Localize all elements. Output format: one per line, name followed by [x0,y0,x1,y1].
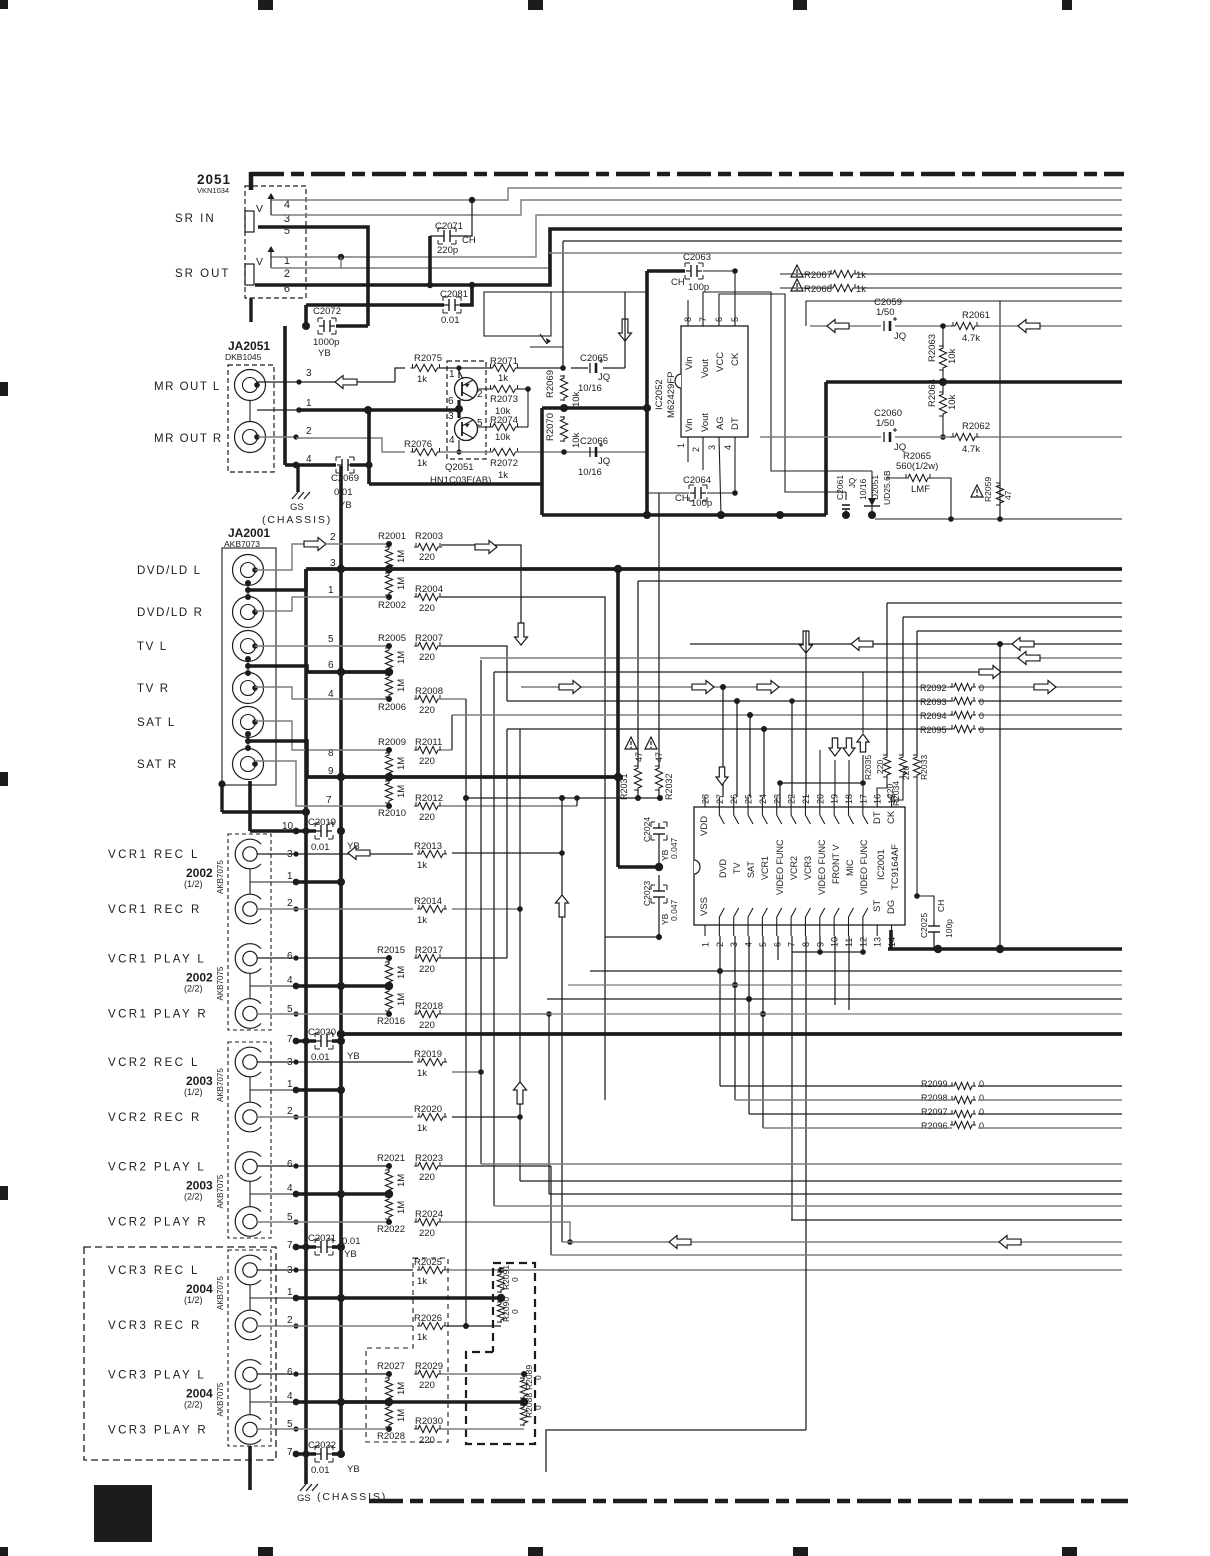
wire R2019 net [452,660,484,1164]
wire IC2001 pin14 DG thick [888,930,1122,953]
wire thick row 515 [542,511,826,519]
wire thick row 1034 [337,1030,1122,1038]
svg-text:0.01: 0.01 [311,842,330,853]
svg-text:YB: YB [347,1464,360,1475]
wire DVD/LD L tip to pin2 [255,544,305,570]
pin labels Q2051 [448,369,483,446]
jack DVD/LD R [137,597,264,628]
transistor Q2051 label [430,462,491,486]
svg-text:4: 4 [287,1183,293,1194]
svg-text:0: 0 [979,1107,984,1117]
arrow row687 d [1034,681,1056,694]
wire TV L tip pin5 [255,643,392,649]
wire SR pin4 net [271,188,1122,203]
resistor R2097 row [749,1107,1122,1118]
black block bottom-left [94,1485,152,1542]
svg-text:100p: 100p [691,498,712,509]
svg-text:R2032: R2032 [664,773,674,800]
connector VCR3 outer box [84,1247,276,1460]
arrow row658 [1018,652,1040,665]
svg-text:8: 8 [801,942,811,947]
svg-text:220: 220 [419,1228,435,1239]
svg-text:220: 220 [901,766,911,780]
wire VCR3 REC R row [257,1323,413,1328]
svg-text:UD25.6B: UD25.6B [882,470,892,505]
wire VCR2 pin1 thick [293,1086,345,1094]
svg-text:220: 220 [419,1435,435,1446]
wire row 1194 [549,1193,1122,1195]
wire R2062 row [760,436,1122,438]
svg-text:1k: 1k [417,1332,427,1343]
resistor R2016 [377,988,407,1027]
wire SAT R tip pin7 [255,761,392,809]
svg-text:47: 47 [1003,490,1013,500]
wire thick row 408 [542,404,651,412]
svg-text:C2025: C2025 [919,913,929,938]
wire R2059 bottom [999,503,1001,519]
wire VCR1 REC R row [257,906,413,911]
wire VCR2 PLAY R row [257,1219,392,1225]
svg-text:220: 220 [419,652,435,663]
warning triangle R2068 [791,279,803,291]
resistor R2009 [378,737,407,776]
svg-text:CH: CH [936,900,946,912]
svg-text:VCR1: VCR1 [760,856,770,880]
svg-text:2: 2 [330,532,336,543]
wire R2064 stub [940,382,946,440]
pin 3 label JA2001 [330,558,336,569]
svg-text:28: 28 [701,794,711,804]
wire IC2001 pin21 drop [805,631,807,797]
wire row 644 [690,641,1122,647]
SR IN label [175,213,216,225]
svg-text:2: 2 [287,1106,293,1117]
arrow row326 b [1018,320,1040,333]
svg-text:Vin: Vin [684,356,695,370]
wire R2014 net [452,729,523,1181]
svg-text:TV L: TV L [137,641,168,653]
wire MR OUT L pin3 net [257,368,405,385]
arrow down x521 [515,623,528,645]
svg-text:(2/2): (2/2) [184,984,203,994]
svg-text:7: 7 [287,1034,293,1045]
ground GS chassis upper [262,465,332,526]
svg-text:1M: 1M [396,1409,407,1422]
pin 6 label JA2001 [328,660,334,671]
svg-text:10k: 10k [571,391,582,407]
svg-text:AKB7075: AKB7075 [216,1276,225,1310]
resistor R2090 [497,1297,520,1323]
svg-text:6: 6 [287,1367,293,1378]
svg-text:1000p: 1000p [313,337,339,348]
page boundary dash-dot bottom [369,1499,1128,1504]
svg-text:VCC: VCC [715,352,726,372]
svg-text:220: 220 [419,964,435,975]
svg-text:IC2001: IC2001 [876,849,887,880]
arrow down x806 [800,631,813,653]
wire 2051 shield stub [249,298,252,322]
svg-text:JQ: JQ [894,331,906,342]
wire IC2001 pin25 drop [749,715,751,797]
svg-text:CK: CK [730,352,741,366]
svg-text:TV: TV [732,862,742,874]
svg-text:7: 7 [287,1447,293,1458]
svg-text:R2075: R2075 [414,353,442,364]
wire VCR2 PLAY L row [257,1163,392,1169]
wire VCR2 REC L row [257,1059,413,1064]
wire IC2001 pin20 drop [819,750,821,797]
svg-text:R2068: R2068 [804,284,832,295]
wire R2012 net [441,795,580,806]
svg-text:MR OUT L: MR OUT L [154,381,221,393]
resistor R2001 [378,531,407,570]
wire R2035 net [877,603,887,797]
wire IC2001 pin10 drop [834,936,836,1005]
arrow down pin27 [716,767,728,785]
jack VCR1 PLAY L [108,944,261,974]
wire VCR3 pin4 thick [293,1398,394,1406]
wire C2023 C2024 column [605,798,663,1100]
wire R2068 row [780,287,1122,289]
wire C2025 net [933,936,935,949]
resistor R2059 [983,477,1013,506]
svg-text:CH: CH [462,235,476,246]
arrow VCR1 REC L [348,847,370,860]
svg-text:C2065: C2065 [580,353,608,364]
jack VCR2 PLAY R [108,1207,261,1237]
wire R2029 net [441,1371,527,1377]
svg-text:VCR1 PLAY R: VCR1 PLAY R [108,1009,208,1021]
pin 1 label JA2001 [328,585,334,596]
resistor R2098 row [735,1093,1122,1104]
svg-text:VKN1034: VKN1034 [197,186,229,195]
component box VCR3 resistor column [366,1258,448,1442]
svg-text:1k: 1k [498,373,508,384]
svg-text:Vout: Vout [700,413,711,432]
svg-text:AG: AG [715,416,726,430]
wire row 253 [549,252,1122,254]
connector 2051 label [197,172,231,195]
svg-text:16: 16 [873,794,883,804]
ic IC2052 bottom pins [676,413,741,515]
wire VCR3 REC L row [257,1267,413,1272]
svg-text:VCR3 PLAY L: VCR3 PLAY L [108,1370,206,1382]
svg-text:R2035: R2035 [863,755,873,780]
wire R2061 row [810,323,1122,329]
ic IC2001 top pin stubs [701,794,898,824]
wire MR OUT R pin2 net [258,434,405,452]
wire VCR1 pin1 thick [293,878,345,886]
resistor R2093 [920,697,984,707]
arrow row687 a [559,681,581,694]
jack TV R [137,673,264,704]
svg-text:2004: 2004 [186,1387,213,1401]
svg-text:VIDEO FUNC: VIDEO FUNC [817,839,827,895]
resistor R2065 [896,451,938,495]
svg-text:5: 5 [730,317,740,322]
wire IC2001 pin9 drop [817,936,823,955]
svg-text:(1/2): (1/2) [184,1087,203,1097]
wire row 1220 [791,1181,1122,1220]
wire R2063 stub [939,326,947,386]
svg-text:560(1/2w): 560(1/2w) [896,461,938,472]
svg-text:1M: 1M [396,1382,407,1395]
connector VCR3 labels [184,1276,225,1417]
pin 1 label [284,255,290,267]
resistor R2019 [414,1049,447,1079]
pin 1 label MR [306,398,312,409]
wire x1000 vertical mid [999,644,1001,949]
svg-text:0: 0 [533,1405,543,1410]
svg-text:1k: 1k [856,284,866,295]
svg-text:DKB1045: DKB1045 [225,352,262,362]
svg-text:VIDEO FUNC: VIDEO FUNC [775,839,785,895]
svg-text:6: 6 [328,660,334,671]
jack VCR3 PLAY L [108,1360,261,1390]
svg-text:SAT L: SAT L [137,717,176,729]
svg-text:V: V [256,203,263,215]
svg-text:R2093: R2093 [920,697,947,707]
jack DVD/LD L [137,555,264,586]
svg-text:Q2051: Q2051 [445,462,474,473]
svg-text:R2061: R2061 [962,310,990,321]
svg-text:C2064: C2064 [683,475,711,486]
resistor R2024 [414,1209,443,1239]
wire IC2001 pin5 net [525,936,1122,1128]
svg-text:10/16: 10/16 [858,478,868,500]
resistor R2089 [520,1365,543,1399]
wire C2081 leads [306,285,472,305]
resistor R2013 [414,841,447,871]
pin 3 label MR [306,368,312,379]
svg-text:1k: 1k [417,1123,427,1134]
svg-text:Vin: Vin [684,418,695,432]
wire VCR3 chassis stub [248,1446,252,1490]
wire R2013 net [452,798,565,1242]
resistor R2069 [545,370,582,407]
svg-text:R2096: R2096 [921,1121,948,1131]
svg-text:0: 0 [979,1121,984,1131]
warning triangle R2067 [791,265,803,277]
wire IC2001 pin24 drop [763,729,765,797]
jack VCR1 REC R [108,894,261,924]
jack VCR3 PLAY R [108,1415,261,1445]
svg-text:TC9164AF: TC9164AF [890,844,901,890]
svg-text:6: 6 [772,942,782,947]
MR OUT L label [154,381,221,393]
svg-text:4.7k: 4.7k [962,444,980,455]
svg-text:1M: 1M [396,966,407,979]
svg-text:R2094: R2094 [920,711,947,721]
resistor R2076 [404,439,442,469]
wire R2020 net [452,1114,523,1120]
arrow row1242 a [669,1236,691,1249]
wire R2025 net [446,1267,1122,1273]
wire R2004 net [441,597,605,937]
wire row 631 [917,630,1122,632]
capacitor C2066 electrolytic [578,436,610,478]
resistor R2062 [951,421,990,455]
svg-text:7: 7 [287,1240,293,1251]
wire main bus B vertical thick [339,466,343,1456]
wire IC2001 pin22 drop [791,701,793,797]
svg-text:4: 4 [287,975,293,986]
connector JA2051 label [225,339,270,362]
svg-text:0: 0 [533,1375,543,1380]
svg-text:25: 25 [744,794,754,804]
svg-text:SR IN: SR IN [175,213,216,225]
capacitor C2059 electrolytic [874,297,906,342]
registration marks top edge [0,0,1072,10]
svg-text:SAT R: SAT R [137,759,178,771]
wire row 783 [777,780,863,807]
pin 3 label [284,213,290,225]
svg-text:YB: YB [318,348,331,359]
wire R2073 R2074 tie [478,386,531,427]
resistor R2099 row [720,1079,1122,1090]
svg-text:VDD: VDD [699,816,710,836]
jack SAT L [137,707,264,738]
svg-text:2004: 2004 [186,1282,213,1296]
svg-text:2003: 2003 [186,1179,213,1193]
arrow MR pin3 [335,376,357,389]
resistor R2064 [927,379,958,417]
svg-text:AKB7075: AKB7075 [216,966,225,1000]
arrow down pin18 [843,738,855,756]
capacitor C2061 electrolytic [835,475,868,515]
svg-text:0.01: 0.01 [334,487,353,498]
svg-text:1k: 1k [417,374,427,385]
svg-text:AKB7075: AKB7075 [216,1068,225,1102]
wire pin9 thick row 777 [248,741,623,781]
arrow row672 [979,666,1001,679]
svg-text:1: 1 [306,398,312,409]
jack VCR3 REC R [108,1310,261,1340]
wire DVD/LD R tip pin1 [255,594,392,611]
wire SR chassis drop [285,326,296,465]
wire row 1206 [494,1205,1122,1207]
svg-text:2003: 2003 [186,1074,213,1088]
wire R2071 row [459,365,566,371]
svg-text:SAT: SAT [746,861,756,878]
capacitor C2081 [440,289,468,326]
wire R2011 net [441,715,452,750]
svg-text:10k: 10k [947,394,958,410]
arrow row1242 b [999,1236,1021,1249]
svg-text:AKB7075: AKB7075 [216,1174,225,1208]
wire pin2 row [327,541,392,547]
svg-text:2: 2 [691,447,701,452]
wire VCR3 pin1 extend [341,1294,505,1302]
note box [484,292,625,344]
svg-text:1k: 1k [498,470,508,481]
svg-text:V: V [256,256,263,268]
svg-text:7: 7 [698,317,708,322]
wire VCR3 PLAY R row [257,1426,392,1432]
svg-text:R2074: R2074 [490,415,518,426]
svg-text:VCR1 REC L: VCR1 REC L [108,849,200,861]
svg-text:R2001: R2001 [378,531,406,542]
svg-text:R2072: R2072 [490,458,518,469]
capacitor C2065 electrolytic [578,353,610,394]
svg-text:1k: 1k [417,915,427,926]
svg-text:VCR1 PLAY L: VCR1 PLAY L [108,954,206,966]
pin labels VCR1 [287,849,293,1045]
connector JA2051 body [228,365,274,472]
wire C2066 row [440,449,647,455]
svg-text:0.01: 0.01 [311,1052,330,1063]
svg-text:4: 4 [723,445,733,450]
svg-text:C2069: C2069 [331,473,359,484]
svg-text:4: 4 [287,1391,293,1402]
pin 7 label JA2001 [326,795,332,806]
resistor R2095 [920,725,984,735]
pin 9 label JA2001 [328,766,334,777]
svg-text:1M: 1M [396,1174,407,1187]
svg-text:2: 2 [287,1315,293,1326]
svg-text:R2098: R2098 [921,1093,948,1103]
registration marks bottom edge [0,1547,1077,1556]
svg-text:0: 0 [979,1079,984,1089]
pin 10 label JA2001 [282,821,294,832]
wire jack links VCR3 [250,1285,296,1415]
ic IC2052 body [675,326,748,437]
jack SAT R [137,749,264,780]
wire SAT L tip pin8 [255,721,392,753]
ic IC2052 label [654,372,677,418]
wire IC2001 pin7 long net [791,936,793,1220]
svg-text:1M: 1M [396,679,407,692]
svg-text:R2097: R2097 [921,1107,948,1117]
resistor R2034 [885,754,907,806]
resistor R2088 [520,1393,543,1426]
svg-text:1: 1 [449,369,455,380]
svg-text:47: 47 [634,752,644,762]
wire R2075 to Q1 [440,365,462,378]
wire IC2001 pin26 drop [736,701,738,797]
wire R2067 row [780,273,1122,275]
svg-text:DVD/LD L: DVD/LD L [137,565,202,577]
wire IC2001 pin13 stub [876,925,878,936]
svg-text:220: 220 [419,756,435,767]
wire row 1164 [481,1163,1122,1165]
MR OUT R label [154,433,223,445]
capacitor C2022 [308,1440,360,1476]
resistor R2021 [377,1153,407,1193]
capacitor C2063 [671,252,711,293]
svg-text:0: 0 [510,1277,520,1282]
wire IC2001 pin11 drop [848,936,850,1010]
resistor R2010 [378,780,407,819]
wire VCR2 pin4 thick [293,1190,394,1198]
svg-text:R2070: R2070 [545,413,556,441]
resistor R2075 [411,353,443,385]
svg-text:2: 2 [287,898,293,909]
svg-text:C2072: C2072 [313,306,341,317]
wire VCR2 cap row [293,1243,345,1251]
svg-text:GS: GS [290,502,304,513]
wire IC2001 pin3 net [568,936,1122,1100]
wire R2026 net [446,798,501,1329]
svg-text:0.01: 0.01 [311,1465,330,1476]
svg-text:1M: 1M [396,577,407,590]
arrow up pin17 [857,734,869,752]
svg-text:(CHASSIS): (CHASSIS) [262,514,332,526]
wire row 1242 [562,1241,1122,1243]
svg-text:DVD: DVD [718,858,728,878]
wire R2030 net [441,1428,524,1430]
wire C2019 right [337,827,345,835]
